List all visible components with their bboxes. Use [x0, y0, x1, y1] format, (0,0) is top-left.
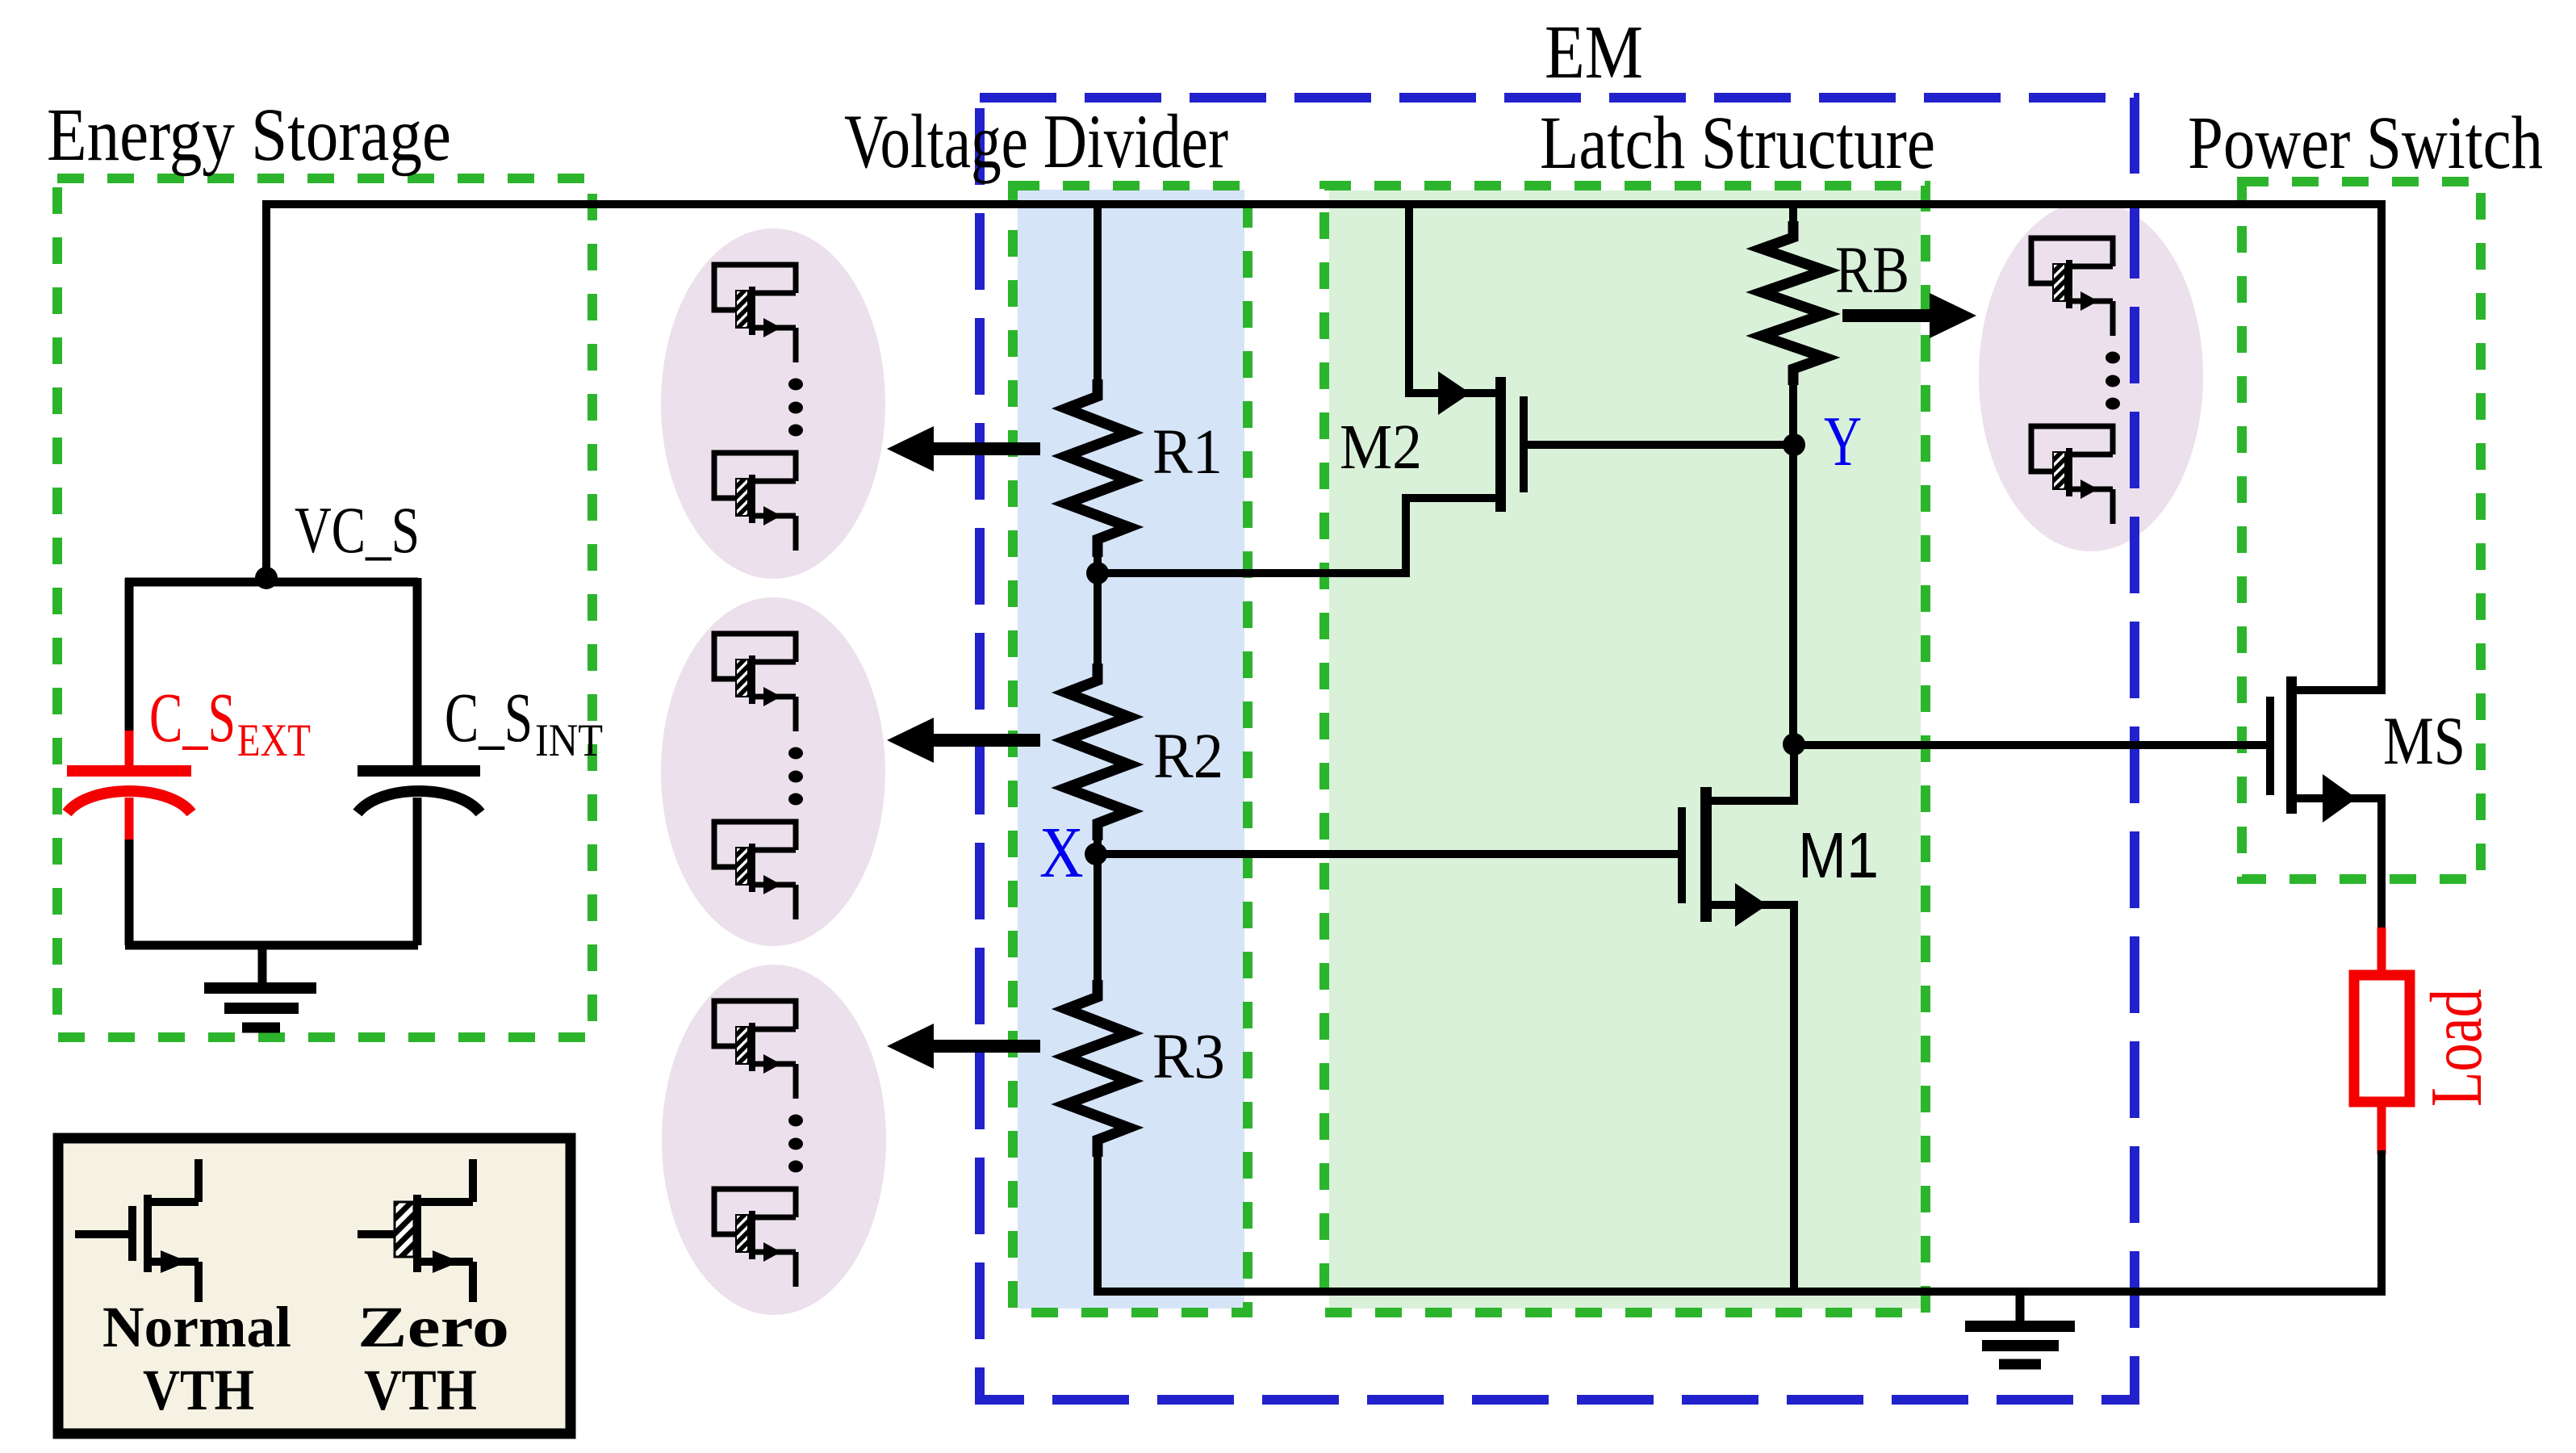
wire: red lead to load [2377, 927, 2386, 975]
svg-text:Load: Load [2415, 989, 2497, 1107]
legend normal-VTH transistor [75, 1159, 199, 1302]
svg-text:Latch Structure: Latch Structure [1540, 102, 1935, 185]
svg-text:M2: M2 [1340, 412, 1422, 483]
svg-text:C_S: C_S [445, 678, 533, 756]
svg-text:Zero: Zero [358, 1295, 509, 1359]
svg-text:EXT: EXT [237, 715, 311, 766]
repeated-stage ellipse group 2 [661, 597, 885, 946]
transistor M1 gate bar [1678, 807, 1686, 903]
wire: M2 source from rail [1409, 200, 1499, 393]
wire: latch output to MS gate [1794, 741, 2266, 749]
ground (energy storage) [204, 945, 316, 1028]
wire: bottom ground rail [1094, 1288, 2386, 1296]
capacitor C_S_INT (black, polarized) [358, 578, 480, 945]
svg-text:EM: EM [1545, 10, 1643, 94]
node Y dot [1783, 433, 1805, 456]
svg-text:Power Switch: Power Switch [2188, 102, 2543, 185]
transistor MS gate bar [2266, 697, 2274, 795]
Power Switch green dashed box [2242, 182, 2481, 879]
arrow tap from RB to power stack [1842, 309, 1935, 322]
transistor M1 source arrow [1735, 883, 1767, 927]
voltage divider shaded region [1018, 190, 1244, 1309]
legend box [58, 1138, 571, 1434]
wire: VC_S column [262, 200, 270, 578]
svg-text:MS: MS [2383, 703, 2465, 779]
resistor RB [1762, 221, 1825, 385]
resistor R3 [1066, 980, 1129, 1157]
Latch Structure green dashed box [1324, 186, 1926, 1313]
zero-VTH stack symbols in ellipse 1 [714, 265, 796, 362]
wire: RB column from rail [1789, 200, 1797, 237]
wire: M2 gate to node Y [1528, 441, 1794, 449]
wire: capacitor loop top [125, 578, 418, 587]
svg-text:Energy Storage: Energy Storage [47, 94, 451, 177]
transistor MS channel bar [2286, 676, 2297, 814]
legend zero-VTH transistor [358, 1159, 473, 1302]
wire: R1 to R2 [1094, 539, 1102, 680]
wire: C_S_EXT leads (black parts) [125, 578, 134, 731]
wire: MS drain from rail [2295, 200, 2382, 690]
wire: node to M2 drain [1098, 498, 1499, 573]
svg-text:Y: Y [1824, 403, 1862, 481]
wire: voltage divider column [1094, 200, 1102, 396]
node M1 drain dot [1783, 733, 1805, 756]
transistor M1 channel bar [1700, 787, 1712, 922]
wire: X node to M1 gate [1098, 850, 1678, 858]
svg-text:VC_S: VC_S [295, 493, 420, 567]
transistor M2 gate bar [1520, 396, 1528, 492]
node X junction dot [1085, 843, 1107, 865]
svg-text:C_S: C_S [149, 678, 236, 756]
svg-text:VTH: VTH [143, 1358, 254, 1422]
svg-text:Voltage Divider: Voltage Divider [844, 98, 1228, 184]
resistor R2 [1066, 664, 1129, 840]
EM blue dashed box [980, 98, 2135, 1400]
zero-VTH stack symbols in ellipse 4 [2031, 238, 2113, 336]
zero-VTH stack symbols in ellipse 2 [714, 634, 796, 731]
svg-text:R1: R1 [1152, 417, 1223, 488]
arrow tap from R1 to stack [928, 442, 1040, 455]
wire: R2 to R3 [1094, 823, 1102, 997]
transistor M2 channel bar [1495, 377, 1506, 512]
transistor M2 source arrow [1438, 371, 1470, 415]
svg-text:X: X [1039, 812, 1084, 893]
repeated-stage ellipse group 3 [662, 965, 886, 1315]
svg-text:Normal: Normal [102, 1295, 291, 1359]
svg-text:R3: R3 [1152, 1022, 1225, 1092]
arrow tap from R2 to stack [928, 734, 1040, 747]
svg-text:R2: R2 [1153, 722, 1223, 792]
wire: load to bottom rail [2377, 1150, 2386, 1292]
svg-text:RB: RB [1835, 232, 1909, 307]
wire: R3 to bottom rail [1094, 1140, 1102, 1292]
ground (bottom right) [1965, 1292, 2075, 1364]
wire: MS source [2295, 798, 2382, 932]
wire: capacitor loop bottom [125, 941, 418, 950]
svg-text:VTH: VTH [364, 1358, 477, 1422]
load resistor box (red) [2354, 975, 2410, 1102]
repeated-stage ellipse group 4 (power switch side) [1979, 201, 2203, 551]
resistor R1 [1066, 379, 1129, 557]
capacitor C_S_EXT (red, polarized) [67, 726, 191, 843]
wire: red lead below load [2377, 1102, 2386, 1154]
svg-text:INT: INT [535, 715, 603, 766]
wire: M1 drain [1708, 744, 1794, 801]
wire: RB to M1 drain node [1789, 369, 1797, 744]
wire: M1 source to bottom rail [1708, 905, 1794, 1292]
latch structure shaded region [1329, 191, 1921, 1309]
node VC_S junction dot [255, 567, 278, 589]
arrow tap from R3 to stack [928, 1040, 1040, 1053]
Voltage Divider green dashed box [1013, 186, 1248, 1313]
zero-VTH stack symbols in ellipse 3 [714, 1001, 796, 1099]
wire: top supply rail [266, 200, 2382, 208]
node R1/R2 junction dot [1086, 562, 1109, 584]
transistor MS source arrow [2323, 774, 2356, 823]
Energy Storage green dashed box [57, 178, 592, 1037]
repeated-stage ellipse group 1 [661, 228, 885, 579]
svg-text:M1: M1 [1798, 819, 1879, 891]
